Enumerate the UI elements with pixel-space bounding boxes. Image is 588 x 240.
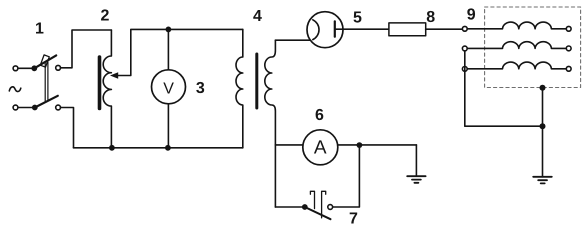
interrupter left contact: [310, 191, 314, 208]
svg-text:6: 6: [315, 107, 324, 124]
terminal 9c (open circle): [462, 67, 467, 72]
terminal: L2 right (open circle): [566, 46, 571, 51]
terminal: upper switch right (open circle): [56, 65, 61, 70]
discharge tube anode bar: [334, 21, 336, 36]
svg-text:2: 2: [101, 8, 110, 25]
wire: voltmeter top lead: [167, 29, 169, 69]
ground symbol left: [407, 176, 425, 183]
wire: resistor to terminal 9: [426, 28, 463, 30]
interrupter S7 blade: [305, 207, 331, 219]
transformer T2 core bar: [255, 54, 258, 108]
wire: shield down to ground: [542, 88, 544, 177]
wire: bottom rail: [74, 147, 243, 149]
terminal 9b (open circle): [462, 46, 467, 51]
junction dot: ammeter output: [357, 142, 363, 148]
terminal: interrupter right (open circle): [328, 205, 333, 210]
wire: secondary bottom down to interrupter: [275, 206, 302, 208]
resistor R8 box: [389, 23, 426, 36]
junction dot: interrupter pivot: [302, 204, 308, 210]
junction dot: upper switch pivot: [31, 65, 37, 71]
junction dot: top rail / voltmeter: [166, 27, 172, 33]
svg-text:A: A: [314, 138, 327, 159]
interrupter right contact: [322, 191, 326, 218]
wire: lower source terminal to switch pole: [18, 107, 32, 109]
wire: upper switch terminal up to autotransformer top: [61, 30, 112, 68]
wire: anode to resistor: [335, 28, 389, 30]
wire: terminals 9b-9c link down to ground bus: [465, 51, 543, 126]
ground symbol right: [533, 177, 552, 184]
junction dot: shield to ground: [540, 85, 546, 91]
discharge tube V5 envelope circle: [307, 12, 343, 48]
wire: to left ground: [415, 145, 417, 176]
terminal: upper source (open circle): [13, 66, 18, 71]
transformer T2 primary winding: [236, 29, 243, 147]
wire: voltmeter bottom lead: [167, 104, 169, 148]
junction dot: lower switch pivot: [32, 105, 38, 111]
junction dot: ground bus joins shield lead: [540, 123, 546, 129]
terminal: lower switch right (open circle): [56, 105, 61, 110]
terminal: L1 right (open circle): [566, 26, 571, 31]
svg-text:4: 4: [253, 8, 262, 25]
terminal: L3 right (open circle): [566, 66, 571, 71]
terminal: lower source (open circle): [13, 105, 18, 110]
wire: upper source terminal to switch pole: [18, 67, 32, 69]
voltmeter PV circle: [152, 70, 186, 104]
autotransformer wiper arrow: [110, 29, 131, 78]
autotransformer T1 core bar: [98, 57, 102, 109]
svg-text:7: 7: [349, 211, 358, 228]
switch S1 upper blade: [34, 55, 56, 68]
discharge tube cathode arc: [313, 20, 319, 40]
shield box (dashed): [485, 7, 581, 88]
inductor L2: [467, 42, 566, 49]
switch S1 insulating link (two bars): [45, 62, 48, 102]
ammeter PA circle: [303, 130, 338, 165]
wire: secondary bottom to ammeter: [275, 144, 302, 146]
transformer T2 secondary winding: [265, 40, 276, 207]
switch S1 handle (tilted box): [40, 55, 49, 67]
autotransformer T1 winding: [103, 30, 111, 148]
svg-text:3: 3: [196, 80, 205, 97]
wire: ammeter to junction: [338, 144, 417, 146]
svg-text:8: 8: [426, 9, 435, 26]
svg-text:1: 1: [35, 21, 44, 38]
wire: top rail (wiper to transformer primary): [131, 28, 243, 30]
junction dot: bottom rail / voltmeter: [165, 145, 171, 151]
svg-text:9: 9: [467, 7, 476, 24]
inductor L3: [467, 62, 566, 69]
wire: junction down to interrupter: [333, 145, 360, 207]
AC source symbol ~: [9, 87, 20, 92]
junction dot: bottom rail / autotransformer: [109, 145, 115, 151]
svg-text:V: V: [163, 80, 174, 97]
terminal 9a (open circle): [462, 26, 467, 31]
svg-text:5: 5: [353, 10, 362, 27]
wire: lower switch terminal down to bottom rail: [61, 108, 74, 148]
inductor L1: [467, 22, 566, 29]
switch S1 lower blade: [35, 96, 58, 108]
wire: secondary top to discharge tube: [275, 39, 310, 41]
